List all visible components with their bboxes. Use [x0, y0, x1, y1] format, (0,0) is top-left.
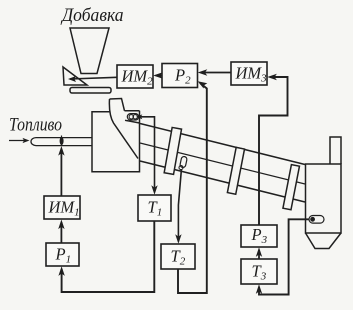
box Р2 — [162, 64, 198, 88]
drum bandage 1 — [164, 127, 181, 174]
drum axis line — [140, 143, 305, 184]
drum sensor capsule — [180, 156, 188, 168]
box Р1 — [46, 243, 79, 266]
box ИМ3 — [231, 62, 267, 85]
drum bandage 2 — [227, 147, 244, 194]
box Т3 — [241, 259, 277, 284]
drum bandage 3 — [283, 165, 300, 210]
wire drum sensor to Т2 — [178, 170, 181, 242]
wire Р2 to ИМ2 — [156, 75, 162, 77]
wire chamber sensor to Т3 — [259, 219, 310, 294]
wire ИМ3 to Р2 — [201, 72, 232, 74]
wire Р3 to ИМ3 — [259, 77, 288, 225]
svg-text:Добавка: Добавка — [60, 5, 123, 26]
box Т1 — [138, 195, 171, 221]
box Р3 — [241, 225, 277, 247]
furnace chute — [109, 99, 138, 159]
drum bottom edge — [140, 161, 305, 202]
wire Т3 to Р3 — [258, 250, 260, 259]
fuel inlet arrow — [9, 140, 26, 142]
fuel pipe — [31, 138, 92, 146]
box ИМ2 — [117, 65, 153, 88]
furnace box — [92, 111, 140, 172]
wire furnace sensor to Т1 — [141, 117, 155, 192]
hopper (Добавка funnel) — [70, 28, 109, 74]
sensor capsule with rollers — [127, 114, 138, 120]
wire Т1 to Р1 feedback — [62, 221, 155, 292]
flap valve triangle — [63, 67, 87, 85]
sensor housing at furnace top — [125, 111, 140, 123]
feeder plate — [70, 88, 111, 94]
chamber hopper bottom — [306, 233, 342, 249]
wire Т2 to Р2 feedback — [178, 83, 207, 293]
drum top edge — [140, 124, 305, 165]
chamber sensor capsule — [309, 216, 324, 224]
discharge chamber — [306, 164, 342, 233]
fuel valve on pipe — [61, 136, 63, 147]
svg-text:Топливо: Топливо — [9, 115, 62, 136]
box Т2 — [161, 244, 195, 269]
box ИМ1 — [44, 196, 80, 219]
chamber chimney — [330, 137, 341, 164]
wire ИМ2 to flap — [70, 77, 117, 79]
wire Р1 to ИМ1 — [60, 222, 62, 243]
wire ИМ1 to fuel pipe — [60, 149, 62, 196]
